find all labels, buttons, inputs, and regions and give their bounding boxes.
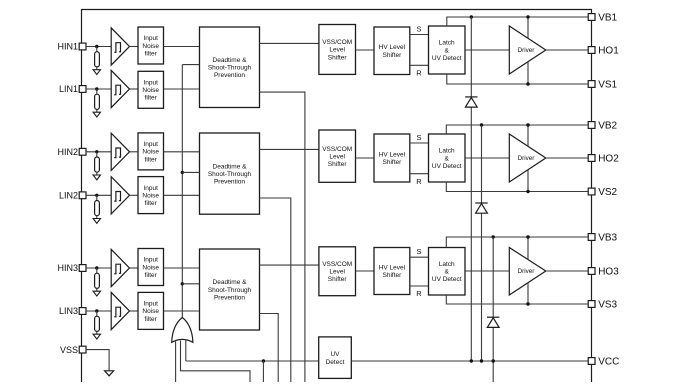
wire LIN3 junction to resistor xyxy=(96,311,98,316)
node driver3 VS junction xyxy=(526,302,529,305)
wire OR-gate output (vertical fault line) xyxy=(181,65,183,319)
wire LIN2 junction to resistor xyxy=(96,195,98,200)
wire UV detect output to or-gate xyxy=(186,360,319,362)
vss/com level shifter block 3 xyxy=(319,247,356,296)
wire buffer U2 to input filter xyxy=(130,88,139,90)
svg-text:filter: filter xyxy=(145,95,158,102)
wire LO3 low-side route down xyxy=(260,314,279,383)
node driver2 VB junction xyxy=(526,123,529,126)
net VS1 rail xyxy=(447,74,589,84)
svg-text:Deadtime &: Deadtime & xyxy=(213,57,248,64)
wire vss/com3 to hv level shifter xyxy=(356,270,375,272)
ground (VSS) xyxy=(105,371,114,376)
node bootstrap2 VCC junction xyxy=(480,359,483,362)
svg-text:Latch: Latch xyxy=(439,261,455,268)
pin VB3 xyxy=(588,234,595,241)
wire or-gate input 1 (from below) xyxy=(175,342,177,383)
resistor R1 (pull-down on HIN1) xyxy=(95,52,100,67)
svg-text:Level: Level xyxy=(329,153,345,160)
pin VB1 xyxy=(588,14,595,21)
svg-text:LIN3: LIN3 xyxy=(59,306,78,316)
driver amplifier 1 xyxy=(509,26,546,74)
wire R1 (reset) xyxy=(410,64,429,66)
svg-text:Noise: Noise xyxy=(142,43,159,50)
wire buffer U3 to input filter xyxy=(130,151,139,153)
input noise filter block (LIN1) xyxy=(138,71,164,108)
ground (below R6) xyxy=(93,334,100,339)
wire buffer U5 to input filter xyxy=(130,267,139,269)
svg-text:VS2: VS2 xyxy=(598,187,617,198)
svg-text:HO3: HO3 xyxy=(598,267,619,278)
ground (below R2) xyxy=(93,112,100,117)
pin LIN1 xyxy=(79,86,86,93)
ground (below R5) xyxy=(93,291,100,296)
wire HIN3 pin to buffer xyxy=(86,267,111,269)
wire LIN3 pin to buffer xyxy=(86,310,111,312)
or-gate (fault combine) xyxy=(172,318,193,343)
svg-text:HIN2: HIN2 xyxy=(57,147,78,157)
schmitt buffer U5 (HIN3) xyxy=(111,249,129,286)
svg-text:HO2: HO2 xyxy=(598,154,619,165)
latch & UV detect block 1 xyxy=(429,26,466,74)
pin HO3 xyxy=(588,268,595,275)
input noise filter block (HIN2) xyxy=(138,133,164,170)
wire resistor R5 to ground xyxy=(96,288,98,291)
node bootstrap1 VB junction xyxy=(470,15,473,18)
wire fault tee into deadtime 2 xyxy=(182,171,199,173)
input noise filter block (LIN2) xyxy=(138,177,164,214)
wire HIN1 pin to buffer xyxy=(86,46,111,48)
input noise filter block (LIN3) xyxy=(138,292,164,329)
node HIN3 pulldown junction xyxy=(95,266,98,269)
ground (below R1) xyxy=(93,70,100,75)
svg-text:Noise: Noise xyxy=(142,149,159,156)
wire filter to deadtime block (HIN2) xyxy=(164,151,200,153)
diode D3 (bootstrap, anode at VCC) xyxy=(487,316,499,318)
resistor R5 (pull-down on HIN3) xyxy=(95,273,100,288)
svg-text:filter: filter xyxy=(145,316,158,323)
net VB3 rail xyxy=(446,237,588,248)
svg-text:Input: Input xyxy=(143,79,158,86)
UV detect block xyxy=(319,337,352,379)
resistor R6 (pull-down on LIN3) xyxy=(95,316,100,331)
wire VSS to ground xyxy=(86,350,109,371)
svg-text:Level: Level xyxy=(329,47,345,54)
wire or-gate input 3 (from UV detect line) xyxy=(185,340,187,362)
wire S1 (set) xyxy=(410,34,429,36)
wire driver2 VB supply stub xyxy=(527,125,529,146)
vss/com level shifter block 1 xyxy=(319,25,356,75)
wire bootstrap1 vertical xyxy=(470,17,472,361)
svg-text:HIN3: HIN3 xyxy=(57,263,78,273)
wire LIN1 junction to resistor xyxy=(96,89,98,94)
wire S2 (set) xyxy=(410,142,429,144)
pin HIN3 xyxy=(79,265,86,272)
ground (below R3) xyxy=(93,175,100,180)
node UV line branch xyxy=(262,359,265,362)
wire driver3 VB supply stub xyxy=(527,237,529,260)
svg-text:VB1: VB1 xyxy=(598,13,617,24)
svg-text:Latch: Latch xyxy=(439,148,455,155)
svg-text:HV Level: HV Level xyxy=(379,264,406,271)
svg-text:Driver: Driver xyxy=(518,268,535,275)
svg-text:Prevention: Prevention xyxy=(214,294,245,301)
vss/com level shifter block 2 xyxy=(319,130,356,182)
wire S3 (set) xyxy=(410,256,429,258)
node LIN3 pulldown junction xyxy=(95,309,98,312)
svg-text:Noise: Noise xyxy=(142,192,159,199)
wire latch3 to driver xyxy=(465,270,509,272)
resistor R2 (pull-down on LIN1) xyxy=(95,94,100,109)
net VB1 rail xyxy=(447,17,589,26)
svg-text:Latch: Latch xyxy=(439,40,455,47)
pin HIN1 xyxy=(79,43,86,50)
node LIN2 pulldown junction xyxy=(95,194,98,197)
svg-text:VSS/COM: VSS/COM xyxy=(322,261,352,268)
svg-text:Driver: Driver xyxy=(518,155,535,162)
pin HIN2 xyxy=(79,148,86,155)
input noise filter block (HIN1) xyxy=(138,27,164,64)
svg-text:HV Level: HV Level xyxy=(379,151,406,158)
svg-text:VSS/COM: VSS/COM xyxy=(322,39,352,46)
svg-text:Prevention: Prevention xyxy=(214,72,245,79)
wire UV branch down xyxy=(262,361,264,382)
svg-text:&: & xyxy=(445,269,450,276)
driver amplifier 3 xyxy=(509,248,546,296)
wire bootstrap2 vertical xyxy=(481,125,483,361)
svg-text:UV: UV xyxy=(330,351,340,358)
hv level shifter block 3 xyxy=(374,248,410,295)
svg-text:Input: Input xyxy=(143,257,158,264)
net VCC rail xyxy=(351,360,588,362)
deadtime & shoot-through prevention block 3 xyxy=(200,249,260,330)
svg-text:Prevention: Prevention xyxy=(214,178,245,185)
net VB2 rail xyxy=(446,125,588,134)
pin HO1 xyxy=(588,47,595,54)
wire resistor R6 to ground xyxy=(96,331,98,334)
wire HIN1 junction to resistor xyxy=(96,47,98,52)
pin LIN3 xyxy=(79,308,86,315)
wire fault tee into deadtime 3 xyxy=(182,283,199,285)
svg-text:Shoot-Through: Shoot-Through xyxy=(208,65,252,72)
wire deadtime3 high-side out to vss/com shifter xyxy=(260,264,319,266)
schmitt buffer U2 (LIN1) xyxy=(111,70,129,107)
wire LO2 low-side route down xyxy=(260,198,291,382)
svg-text:Detect: Detect xyxy=(326,359,345,366)
svg-text:Shifter: Shifter xyxy=(383,159,403,166)
pin VS3 xyxy=(588,301,595,308)
svg-text:Shifter: Shifter xyxy=(328,276,348,283)
wire vss/com1 to hv level shifter xyxy=(356,49,375,51)
svg-text:R: R xyxy=(416,177,422,186)
svg-text:Level: Level xyxy=(329,269,345,276)
svg-text:VS3: VS3 xyxy=(598,300,617,311)
diode D2 (bootstrap, anode at VCC) xyxy=(475,202,487,204)
input noise filter block (HIN3) xyxy=(138,249,164,286)
resistor R4 (pull-down on LIN2) xyxy=(95,201,100,216)
wire buffer U6 to input filter xyxy=(130,310,139,312)
svg-text:Shoot-Through: Shoot-Through xyxy=(208,171,252,178)
svg-text:filter: filter xyxy=(145,156,158,163)
latch & UV detect block 2 xyxy=(429,134,466,182)
pin VS1 xyxy=(588,81,595,88)
svg-text:VSS: VSS xyxy=(60,345,78,355)
svg-text:Noise: Noise xyxy=(142,87,159,94)
svg-text:VB2: VB2 xyxy=(598,121,617,132)
svg-text:&: & xyxy=(445,155,450,162)
svg-text:Driver: Driver xyxy=(518,47,535,54)
pin HO2 xyxy=(588,155,595,162)
wire bootstrap3 vertical xyxy=(492,237,494,382)
svg-text:&: & xyxy=(445,47,450,54)
node bootstrap1 VCC junction xyxy=(470,359,473,362)
svg-text:VCC: VCC xyxy=(598,357,619,368)
resistor R3 (pull-down on HIN2) xyxy=(95,157,100,172)
svg-text:S: S xyxy=(416,247,421,256)
ground (below R4) xyxy=(93,219,100,224)
wire latch1 to driver xyxy=(465,49,509,51)
hv level shifter block 2 xyxy=(374,134,410,182)
wire filter to deadtime block (LIN1) xyxy=(164,88,200,90)
svg-text:Noise: Noise xyxy=(142,308,159,315)
pin VS2 xyxy=(588,188,595,195)
pin VB2 xyxy=(588,122,595,129)
node HIN1 pulldown junction xyxy=(95,45,98,48)
svg-text:VS1: VS1 xyxy=(598,80,617,91)
svg-text:S: S xyxy=(416,133,421,142)
wire or-gate input 2 (L-route from below) xyxy=(181,341,251,383)
svg-text:Shifter: Shifter xyxy=(383,272,403,279)
svg-text:VB3: VB3 xyxy=(598,233,617,244)
wire driver2 VS return stub xyxy=(527,170,529,192)
wire resistor R1 to ground xyxy=(96,67,98,70)
wire fault tee into deadtime 1 xyxy=(182,64,199,66)
schmitt buffer U6 (LIN3) xyxy=(111,292,129,329)
pin VSS xyxy=(79,346,86,353)
wire filter to deadtime block (LIN3) xyxy=(164,310,200,312)
node LIN1 pulldown junction xyxy=(95,87,98,90)
wire buffer U4 to input filter xyxy=(130,194,139,196)
node driver1 VS junction xyxy=(526,82,529,85)
wire resistor R3 to ground xyxy=(96,172,98,175)
wire HIN3 junction to resistor xyxy=(96,268,98,273)
schmitt buffer U1 (HIN1) xyxy=(111,28,129,65)
wire latch2 to driver xyxy=(465,157,509,159)
wire driver1 VB supply stub xyxy=(527,17,529,38)
deadtime & shoot-through prevention block 2 xyxy=(200,133,260,214)
wire filter to deadtime block (LIN2) xyxy=(164,194,200,196)
wire filter to deadtime block (HIN3) xyxy=(164,267,200,269)
schmitt buffer U4 (LIN2) xyxy=(111,177,129,214)
IC outer boundary xyxy=(82,10,592,383)
diode D1 (bootstrap, anode at VCC) xyxy=(465,96,477,98)
svg-text:Noise: Noise xyxy=(142,264,159,271)
svg-text:HO1: HO1 xyxy=(598,46,619,57)
pin LIN2 xyxy=(79,192,86,199)
deadtime & shoot-through prevention block 1 xyxy=(200,27,260,108)
svg-text:filter: filter xyxy=(145,272,158,279)
wire resistor R4 to ground xyxy=(96,216,98,219)
svg-text:Input: Input xyxy=(143,141,158,148)
wire LIN2 pin to buffer xyxy=(86,194,111,196)
wire HO2 driver output xyxy=(546,157,589,159)
wire deadtime1 high-side out to vss/com shifter xyxy=(260,42,319,44)
wire R2 (reset) xyxy=(410,173,429,175)
svg-text:Deadtime &: Deadtime & xyxy=(213,279,248,286)
svg-text:Shifter: Shifter xyxy=(328,54,348,61)
wire LO1 low-side route down xyxy=(260,92,305,382)
node bootstrap3 VB junction xyxy=(492,235,495,238)
svg-text:S: S xyxy=(416,24,421,33)
svg-text:Input: Input xyxy=(143,301,158,308)
svg-text:Shifter: Shifter xyxy=(383,52,403,59)
svg-text:filter: filter xyxy=(145,50,158,57)
node bootstrap2 VB junction xyxy=(480,123,483,126)
svg-text:LIN1: LIN1 xyxy=(59,84,78,94)
svg-text:Input: Input xyxy=(143,35,158,42)
latch & UV detect block 3 xyxy=(429,248,466,296)
pin VCC xyxy=(588,358,595,365)
svg-text:HV Level: HV Level xyxy=(379,44,406,51)
hv level shifter block 1 xyxy=(374,27,410,75)
node fault tee 2 xyxy=(181,171,184,174)
svg-text:R: R xyxy=(416,69,422,78)
wire HIN2 pin to buffer xyxy=(86,151,111,153)
svg-text:Deadtime &: Deadtime & xyxy=(213,163,248,170)
svg-text:Shoot-Through: Shoot-Through xyxy=(208,287,252,294)
svg-text:filter: filter xyxy=(145,200,158,207)
svg-text:R: R xyxy=(416,289,422,298)
wire driver3 VS return stub xyxy=(527,283,529,304)
wire buffer U1 to input filter xyxy=(130,46,139,48)
wire HO1 driver output xyxy=(546,49,589,51)
svg-text:UV Detect: UV Detect xyxy=(432,55,462,62)
wire filter to deadtime block (HIN1) xyxy=(164,46,200,48)
wire LIN1 pin to buffer xyxy=(86,88,111,90)
wire driver1 VS return stub xyxy=(527,62,529,84)
svg-text:VSS/COM: VSS/COM xyxy=(322,146,352,153)
node bootstrap3 VCC junction xyxy=(492,359,495,362)
wire HO3 driver output xyxy=(546,270,589,272)
node HIN2 pulldown junction xyxy=(95,150,98,153)
wire resistor R2 to ground xyxy=(96,109,98,112)
node fault tee 3 xyxy=(181,282,184,285)
svg-text:Shifter: Shifter xyxy=(328,161,348,168)
wire HIN2 junction to resistor xyxy=(96,152,98,157)
net VS2 rail xyxy=(446,182,588,192)
svg-text:UV Detect: UV Detect xyxy=(432,276,462,283)
svg-text:UV Detect: UV Detect xyxy=(432,163,462,170)
node driver1 VB junction xyxy=(526,15,529,18)
wire R3 (reset) xyxy=(410,285,429,287)
node driver3 VB junction xyxy=(526,235,529,238)
node driver2 VS junction xyxy=(526,190,529,193)
svg-text:HIN1: HIN1 xyxy=(57,42,78,52)
wire deadtime2 high-side out to vss/com shifter xyxy=(260,148,319,150)
svg-text:LIN2: LIN2 xyxy=(59,191,78,201)
driver amplifier 2 xyxy=(509,134,546,182)
svg-text:Input: Input xyxy=(143,185,158,192)
net VS3 rail xyxy=(446,295,588,304)
wire vss/com2 to hv level shifter xyxy=(356,157,375,159)
schmitt buffer U3 (HIN2) xyxy=(111,133,129,170)
